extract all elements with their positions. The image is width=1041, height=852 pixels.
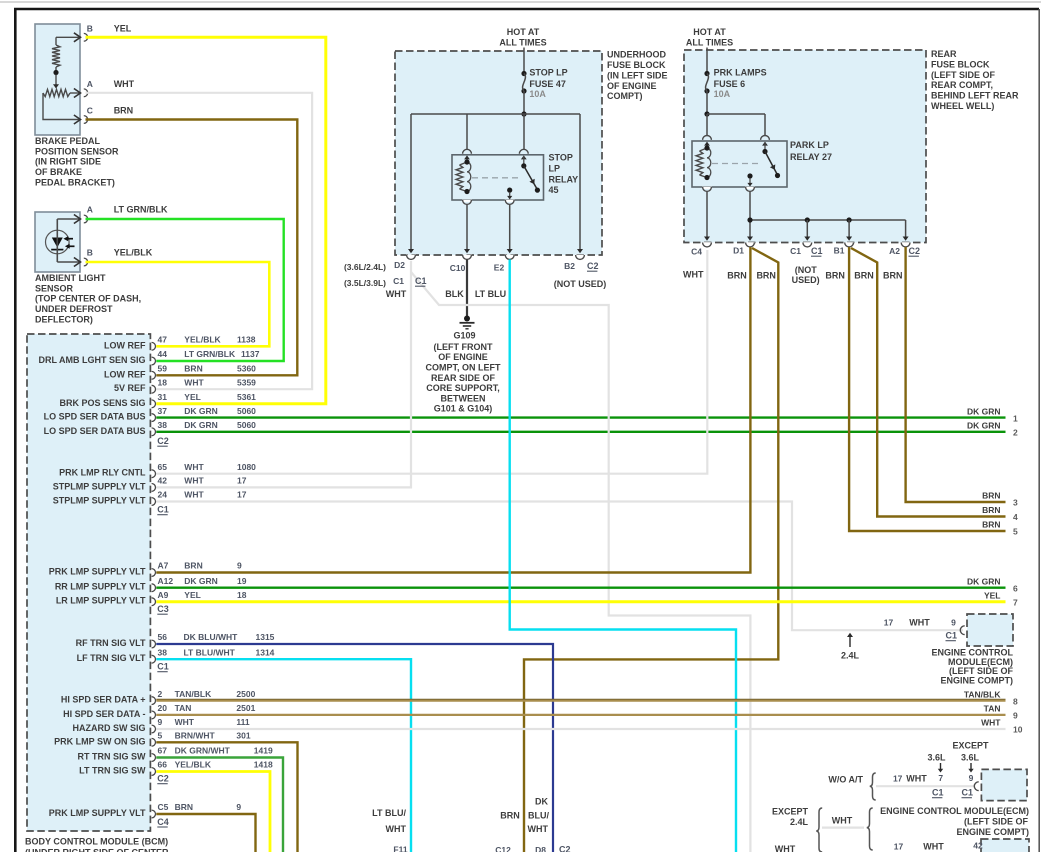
svg-text:A9: A9 (158, 590, 169, 600)
svg-text:RT TRN SIG SW: RT TRN SIG SW (78, 752, 147, 762)
svg-text:47: 47 (158, 335, 168, 345)
svg-text:C2: C2 (157, 436, 169, 446)
svg-text:LT TRN SIG SW: LT TRN SIG SW (79, 766, 146, 776)
wire park relay out to D1 junction (749, 192, 751, 238)
wire YEL BCM A9 to lamp 7 (156, 600, 1005, 603)
svg-text:BRN: BRN (883, 271, 903, 281)
svg-text:4: 4 (1013, 512, 1018, 522)
svg-text:TAN: TAN (175, 703, 192, 713)
svg-text:RR LMP SUPPLY VLT: RR LMP SUPPLY VLT (55, 582, 146, 592)
svg-text:HI SPD SER DATA -: HI SPD SER DATA - (63, 709, 145, 719)
wire LT GRN/BLK ambient A to BCM 44 (86, 219, 284, 361)
junction dot rear (704, 111, 709, 116)
brake sensor potentiometer (43, 89, 70, 96)
svg-text:B2: B2 (564, 261, 575, 271)
wire BRN rear B1 branch to lamp 4 (851, 248, 1006, 517)
svg-text:WHT: WHT (528, 824, 549, 834)
svg-text:1138: 1138 (237, 335, 256, 345)
ambient light sensor box (35, 212, 80, 272)
wire BRN rear D1 to BCM A7 (156, 247, 750, 573)
wire to park relay switch (764, 114, 766, 136)
wire BLK C10 to G109 (466, 260, 468, 317)
svg-text:WHT: WHT (981, 718, 1001, 728)
svg-text:BRN: BRN (825, 271, 845, 281)
svg-text:BLU/: BLU/ (528, 811, 549, 821)
wire BRN rear A2 to lamp 3 (906, 247, 1006, 502)
svg-text:CORE SUPPORT,: CORE SUPPORT, (426, 383, 500, 393)
svg-text:9: 9 (237, 561, 242, 571)
wire WHT brake A to BCM 18 (86, 93, 313, 389)
2.4L arrow (849, 636, 851, 648)
svg-text:(UNDER RIGHT SIDE OF CENTER: (UNDER RIGHT SIDE OF CENTER (25, 848, 169, 852)
svg-text:RF TRN SIG VLT: RF TRN SIG VLT (76, 638, 146, 648)
pin select arrows (940, 763, 942, 770)
mid ECM box (981, 769, 1027, 800)
svg-text:C1: C1 (393, 276, 404, 286)
svg-text:F11: F11 (393, 845, 407, 852)
svg-text:(NOT USED): (NOT USED) (554, 279, 607, 289)
svg-text:3: 3 (1013, 498, 1018, 508)
svg-text:3.6L: 3.6L (927, 753, 946, 763)
svg-text:HAZARD SW SIG: HAZARD SW SIG (73, 723, 146, 733)
junction dot underhood (521, 111, 526, 116)
svg-text:AMBIENT LIGHT: AMBIENT LIGHT (35, 273, 106, 283)
wire BRN BCM C5 down (156, 814, 255, 852)
svg-text:1: 1 (1013, 413, 1018, 423)
top separator hairline (0, 1, 1041, 3)
svg-text:C1: C1 (157, 505, 169, 515)
svg-text:REAR: REAR (931, 49, 957, 59)
wire to stop relay switch (523, 114, 525, 149)
stop relay bottom arcs (462, 200, 472, 202)
svg-text:(LEFT SIDE OF: (LEFT SIDE OF (964, 817, 1029, 827)
wire TAN/BLK BCM 2 to lamp 8 (156, 699, 1005, 701)
svg-text:WHT: WHT (184, 462, 204, 472)
svg-text:7: 7 (1013, 597, 1018, 607)
wire WHT BCM 42 to underhood D2 (156, 261, 411, 487)
svg-text:LOW REF: LOW REF (104, 369, 146, 379)
svg-text:TAN/BLK: TAN/BLK (175, 689, 213, 699)
svg-text:56: 56 (158, 632, 168, 642)
svg-text:9: 9 (951, 618, 956, 628)
svg-text:DK GRN: DK GRN (967, 406, 1001, 416)
svg-text:PRK LMP SUPPLY VLT: PRK LMP SUPPLY VLT (49, 567, 146, 577)
svg-text:BRN: BRN (175, 802, 193, 812)
svg-text:OF ENGINE: OF ENGINE (607, 81, 657, 91)
svg-text:DK GRN: DK GRN (184, 406, 218, 416)
ambient light sensor photodiode (46, 230, 70, 254)
except 2.4L label and brace (816, 808, 822, 852)
svg-text:C1: C1 (962, 788, 974, 798)
prk lamps fuse 6 (704, 71, 709, 76)
svg-text:PRK LMP SUPPLY VLT: PRK LMP SUPPLY VLT (49, 808, 146, 818)
junction dots rear bus (747, 217, 752, 222)
svg-text:42: 42 (158, 476, 168, 486)
svg-text:1314: 1314 (256, 647, 275, 657)
svg-text:BRN: BRN (982, 505, 1000, 515)
svg-text:1315: 1315 (256, 632, 275, 642)
park relay divider dashed (712, 163, 760, 165)
rear fuse block box (684, 50, 926, 243)
svg-text:2.4L: 2.4L (790, 817, 809, 827)
svg-text:C2: C2 (587, 261, 599, 271)
svg-text:5: 5 (1013, 527, 1018, 537)
svg-text:38: 38 (158, 420, 168, 430)
rear distribution bus (750, 219, 906, 221)
svg-text:2501: 2501 (236, 703, 255, 713)
svg-text:C4: C4 (157, 817, 169, 827)
svg-text:C1: C1 (946, 631, 958, 641)
svg-text:ENGINE COMPT): ENGINE COMPT) (940, 675, 1013, 685)
svg-text:C1: C1 (790, 246, 801, 256)
svg-text:DRL AMB LGHT SEN SIG: DRL AMB LGHT SEN SIG (38, 355, 145, 365)
ambient sensor internal wires (57, 218, 79, 220)
svg-text:C2: C2 (909, 246, 921, 256)
wire DK GRN BCM A12 to lamp 6 (156, 587, 1005, 589)
svg-text:D8: D8 (535, 845, 546, 852)
svg-text:FUSE 47: FUSE 47 (529, 79, 566, 89)
ground G109 symbol (464, 316, 470, 322)
svg-text:BRN: BRN (756, 271, 776, 281)
svg-text:37: 37 (158, 406, 168, 416)
svg-text:UNDERHOOD: UNDERHOOD (607, 50, 667, 60)
svg-text:WHT: WHT (184, 377, 204, 387)
underhood connector arcs (406, 255, 416, 257)
svg-text:LT BLU/WHT: LT BLU/WHT (184, 647, 236, 657)
svg-text:BETWEEN: BETWEEN (441, 393, 486, 403)
svg-text:1080: 1080 (237, 462, 256, 472)
ambient sensor pin A (84, 215, 88, 223)
svg-text:C2: C2 (157, 774, 169, 784)
svg-text:WHT: WHT (386, 289, 407, 299)
svg-text:6: 6 (1013, 583, 1018, 593)
svg-text:59: 59 (158, 364, 168, 374)
W/O A/T label and brace (870, 773, 876, 800)
ambient sensor pin B (84, 258, 88, 266)
svg-text:BRN/WHT: BRN/WHT (175, 731, 216, 741)
svg-text:PEDAL BRACKET): PEDAL BRACKET) (35, 178, 115, 188)
svg-text:66: 66 (158, 760, 168, 770)
svg-text:WHT: WHT (923, 842, 944, 852)
svg-text:1419: 1419 (254, 746, 273, 756)
svg-text:20: 20 (158, 703, 168, 713)
rear connector arcs (702, 242, 712, 244)
svg-text:RELAY: RELAY (549, 174, 579, 184)
brake sensor wiper arrow (55, 75, 57, 86)
svg-text:REAR SIDE OF: REAR SIDE OF (431, 373, 496, 383)
svg-text:A: A (87, 204, 93, 214)
svg-text:PRK LMP RLY CNTL: PRK LMP RLY CNTL (59, 468, 146, 478)
stop lp fuse 47 (521, 71, 526, 76)
svg-text:C5: C5 (158, 802, 169, 812)
wire BRN brake C to BCM 59 (86, 120, 298, 376)
svg-text:5060: 5060 (237, 406, 256, 416)
svg-text:A2: A2 (889, 246, 900, 256)
svg-text:31: 31 (158, 392, 168, 402)
rear bus wire (707, 113, 765, 115)
svg-text:E2: E2 (494, 263, 505, 273)
svg-text:G101 & G104): G101 & G104) (434, 404, 493, 414)
svg-text:TAN/BLK: TAN/BLK (964, 689, 1002, 699)
BCM pin terminals and labels (152, 342, 156, 350)
wire LT BLU underhood E2 down and right (510, 260, 736, 852)
svg-text:38: 38 (158, 647, 168, 657)
svg-text:FUSE BLOCK: FUSE BLOCK (607, 60, 666, 70)
svg-text:YEL: YEL (184, 590, 201, 600)
svg-text:YEL/BLK: YEL/BLK (184, 335, 221, 345)
svg-text:HI SPD SER DATA +: HI SPD SER DATA + (61, 695, 146, 705)
wire DK GRN BCM 37 data bus (156, 416, 1005, 418)
svg-text:DK GRN: DK GRN (184, 420, 218, 430)
wire YEL/BLK BCM 66 down (156, 772, 270, 852)
svg-text:5360: 5360 (237, 364, 256, 374)
svg-text:OF ENGINE: OF ENGINE (438, 352, 488, 362)
svg-text:YEL: YEL (184, 392, 201, 402)
brake sensor pin C (84, 116, 88, 124)
svg-text:DK GRN: DK GRN (967, 576, 1001, 586)
wire WHT BCM 24 to upper ECM (156, 502, 963, 631)
wire DK BLU/WHT BCM 56 to D8 (156, 644, 553, 852)
wire TAN BCM 20 to lamp 9 (156, 714, 1005, 716)
svg-text:111: 111 (236, 717, 250, 727)
svg-text:LT GRN/BLK: LT GRN/BLK (184, 349, 236, 359)
upper ECM connector (960, 626, 964, 635)
wire relay out to E2 (509, 205, 511, 251)
svg-text:WHT: WHT (775, 844, 796, 852)
svg-text:BRN: BRN (727, 271, 747, 281)
svg-text:(LEFT FRONT: (LEFT FRONT (434, 342, 493, 352)
svg-text:2500: 2500 (236, 689, 255, 699)
svg-text:COMPT): COMPT) (607, 91, 643, 101)
mid ECM wire (876, 785, 975, 787)
wire WHT branch D2 to lower ECM feed (411, 272, 750, 852)
svg-text:24: 24 (158, 490, 168, 500)
wire to stop relay coil (466, 114, 468, 149)
body control module (BCM) box (27, 334, 150, 831)
wire junction to B2 (579, 114, 581, 251)
wht variant wire (822, 826, 864, 828)
svg-text:BRN: BRN (982, 491, 1000, 501)
svg-text:LT BLU: LT BLU (475, 289, 506, 299)
wire WHT BCM 65 to rear C4 (156, 250, 707, 474)
brake pedal position sensor box (35, 24, 80, 135)
svg-text:D1: D1 (733, 246, 744, 256)
svg-text:5V REF: 5V REF (114, 383, 146, 393)
svg-text:17: 17 (893, 774, 903, 784)
svg-text:A12: A12 (158, 576, 174, 586)
svg-text:(IN RIGHT SIDE: (IN RIGHT SIDE (35, 157, 101, 167)
svg-text:ENGINE COMPT): ENGINE COMPT) (956, 827, 1029, 837)
park relay switch (762, 142, 768, 146)
svg-text:B1: B1 (834, 246, 845, 256)
svg-text:7: 7 (938, 773, 943, 783)
variant merge brace (867, 808, 873, 850)
svg-text:HOT AT: HOT AT (693, 27, 726, 37)
svg-text:PARK LP: PARK LP (790, 140, 829, 150)
wire LT BLU/WHT BCM 38 to F11 (156, 659, 411, 852)
svg-text:FUSE BLOCK: FUSE BLOCK (931, 60, 990, 70)
svg-text:B: B (87, 248, 93, 258)
brake sensor pin A (84, 89, 88, 97)
svg-text:2: 2 (1013, 428, 1018, 438)
park relay coil (704, 142, 710, 146)
wire DK GRN BCM 38 data bus (156, 431, 1005, 433)
park relay bottom arcs (702, 187, 712, 189)
svg-text:1418: 1418 (254, 760, 273, 770)
svg-text:WHT: WHT (184, 490, 204, 500)
svg-text:45: 45 (549, 185, 559, 195)
svg-text:2.4L: 2.4L (841, 651, 860, 661)
svg-text:(IN LEFT SIDE: (IN LEFT SIDE (607, 70, 668, 80)
svg-text:EXCEPT: EXCEPT (952, 741, 989, 751)
svg-text:YEL/BLK: YEL/BLK (175, 760, 212, 770)
svg-text:DK GRN: DK GRN (184, 576, 218, 586)
svg-text:POSITION SENSOR: POSITION SENSOR (35, 146, 119, 156)
svg-text:WHT: WHT (184, 476, 204, 486)
svg-text:YEL: YEL (984, 590, 1001, 600)
stop relay contact out (507, 188, 512, 193)
svg-text:WHT: WHT (683, 269, 704, 279)
svg-text:44: 44 (158, 349, 168, 359)
svg-text:BRN: BRN (184, 561, 202, 571)
svg-text:YEL: YEL (114, 24, 132, 34)
svg-text:SENSOR: SENSOR (35, 283, 74, 293)
wire BRN rear D1 branch to C12 (524, 248, 778, 852)
svg-text:STOP LP: STOP LP (529, 68, 567, 78)
svg-text:DK GRN: DK GRN (967, 421, 1001, 431)
svg-text:LR LMP SUPPLY VLT: LR LMP SUPPLY VLT (56, 596, 146, 606)
svg-text:W/O A/T: W/O A/T (828, 775, 863, 785)
svg-text:B: B (87, 24, 93, 34)
svg-text:67: 67 (158, 746, 168, 756)
svg-text:EXCEPT: EXCEPT (772, 807, 809, 817)
svg-text:LO SPD SER DATA BUS: LO SPD SER DATA BUS (44, 426, 146, 436)
svg-text:ENGINE CONTROL MODULE(ECM): ENGINE CONTROL MODULE(ECM) (880, 806, 1029, 816)
svg-text:BRK POS SENS SIG: BRK POS SENS SIG (59, 398, 145, 408)
svg-text:2: 2 (158, 689, 163, 699)
svg-text:C1: C1 (932, 788, 944, 798)
svg-text:UNDER DEFROST: UNDER DEFROST (35, 304, 113, 314)
svg-text:17: 17 (237, 476, 247, 486)
svg-text:5060: 5060 (237, 420, 256, 430)
svg-text:LT GRN/BLK: LT GRN/BLK (114, 204, 168, 214)
park relay contact out (747, 173, 752, 178)
svg-text:42: 42 (973, 841, 983, 851)
svg-text:17: 17 (894, 842, 904, 852)
svg-text:WHT: WHT (832, 816, 853, 826)
svg-text:WHT: WHT (909, 618, 930, 628)
svg-text:YEL/BLK: YEL/BLK (114, 248, 153, 258)
brake sensor pin B (84, 33, 88, 41)
svg-text:C2: C2 (559, 845, 571, 852)
wire YEL brake B to BCM 31 (86, 37, 326, 404)
svg-text:DK BLU/WHT: DK BLU/WHT (184, 632, 239, 642)
wire fuse to junction (rear) (706, 91, 708, 114)
brake sensor internal resistor (56, 36, 79, 38)
svg-text:DK GRN/WHT: DK GRN/WHT (175, 746, 231, 756)
svg-text:ALL TIMES: ALL TIMES (686, 38, 733, 48)
svg-text:TAN: TAN (984, 704, 1001, 714)
svg-text:WHT: WHT (906, 774, 927, 784)
svg-text:A7: A7 (158, 561, 169, 571)
svg-text:C3: C3 (157, 604, 169, 614)
svg-text:C1: C1 (415, 276, 427, 286)
bottom ECM box (981, 839, 1029, 852)
svg-text:C1: C1 (811, 246, 823, 256)
wire park coil to C4 (706, 192, 708, 238)
wire YEL/BLK ambient B to BCM 47 (86, 262, 270, 346)
park lp relay 27 box (703, 135, 712, 139)
mid ECM connector (974, 782, 978, 791)
svg-text:ALL TIMES: ALL TIMES (499, 38, 546, 48)
svg-text:OF BRAKE: OF BRAKE (35, 167, 82, 177)
svg-text:(3.5L/3.9L): (3.5L/3.9L) (344, 278, 386, 288)
svg-text:(NOT: (NOT (795, 265, 817, 275)
svg-text:3.6L: 3.6L (961, 753, 980, 763)
svg-text:D2: D2 (394, 260, 405, 270)
svg-text:9: 9 (969, 773, 974, 783)
svg-text:WHT: WHT (386, 824, 407, 834)
svg-text:STPLMP SUPPLY VLT: STPLMP SUPPLY VLT (53, 496, 146, 506)
svg-text:C10: C10 (450, 263, 466, 273)
svg-text:17: 17 (884, 618, 894, 628)
stop lp relay 45 box (463, 149, 472, 153)
svg-text:STOP: STOP (549, 153, 573, 163)
svg-text:PRK LAMPS: PRK LAMPS (714, 68, 767, 78)
svg-text:C12: C12 (495, 845, 511, 852)
wire BRN/WHT BCM 5 down (156, 742, 297, 852)
svg-text:PRK LMP SW ON SIG: PRK LMP SW ON SIG (54, 736, 145, 746)
svg-text:(3.6L/2.4L): (3.6L/2.4L) (344, 262, 386, 272)
svg-text:LT BLU/: LT BLU/ (372, 808, 406, 818)
stop relay divider dashed (472, 177, 520, 179)
svg-text:BRAKE PEDAL: BRAKE PEDAL (35, 136, 101, 146)
svg-text:17: 17 (237, 490, 247, 500)
svg-text:COMPT, ON LEFT: COMPT, ON LEFT (426, 363, 501, 373)
svg-text:A: A (87, 79, 93, 89)
svg-text:18: 18 (158, 377, 168, 387)
svg-text:10A: 10A (529, 89, 546, 99)
svg-text:WHT: WHT (175, 717, 195, 727)
svg-text:LP: LP (549, 164, 561, 174)
svg-text:LO SPD SER DATA BUS: LO SPD SER DATA BUS (44, 412, 146, 422)
svg-text:FUSE 6: FUSE 6 (714, 79, 746, 89)
wire WHT BCM 9 to lamp 10 (156, 728, 1005, 730)
svg-text:19: 19 (237, 576, 247, 586)
svg-text:(LEFT SIDE OF: (LEFT SIDE OF (931, 70, 996, 80)
feed wire into stop lp fuse (523, 48, 525, 74)
underhood bus wire (411, 113, 580, 115)
svg-text:5361: 5361 (237, 392, 256, 402)
stop relay switch (521, 155, 527, 159)
svg-text:65: 65 (158, 462, 168, 472)
wire BRN rear B1 to lamp 5 (849, 247, 1005, 531)
svg-text:9: 9 (1013, 711, 1018, 721)
svg-text:9: 9 (236, 802, 241, 812)
svg-text:C: C (87, 106, 93, 116)
svg-text:BEHIND LEFT REAR: BEHIND LEFT REAR (931, 91, 1019, 101)
svg-text:10A: 10A (714, 89, 731, 99)
svg-text:DEFLECTOR): DEFLECTOR) (35, 315, 93, 325)
svg-text:(TOP CENTER OF DASH,: (TOP CENTER OF DASH, (35, 294, 141, 304)
brake sensor junction dot (53, 70, 58, 75)
wire bus to B1 (848, 220, 850, 238)
svg-text:BRN: BRN (500, 811, 520, 821)
svg-text:8: 8 (1013, 696, 1018, 706)
wire to park relay coil (706, 114, 708, 136)
svg-text:BRN: BRN (184, 364, 202, 374)
svg-text:RELAY 27: RELAY 27 (790, 152, 832, 162)
